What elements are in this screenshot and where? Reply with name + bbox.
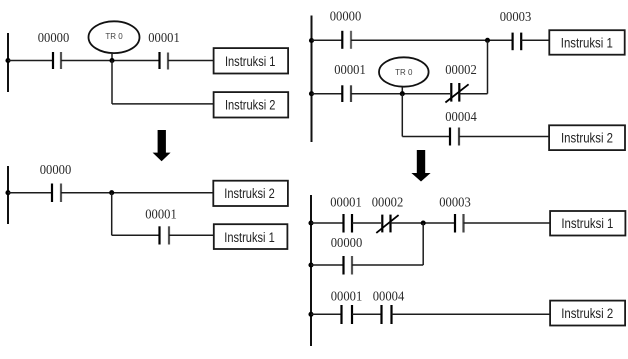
box Instruksi 2 (C) [549,125,625,150]
svg-text:00001: 00001 [145,207,177,222]
branch vertical from TR0 node down (C) [401,94,403,137]
branch vertical wire (B) [111,193,113,236]
svg-text:Instruksi 2: Instruksi 2 [224,186,275,201]
wire rail to contact 00001 rung2 (D) [311,313,341,315]
wire contact 00003 to box (C) [521,39,549,41]
junction dot rail C rung2 [309,91,314,96]
svg-text:Instruksi 1: Instruksi 1 [561,216,613,231]
contact 00004 (D) [380,305,382,324]
contact 00001 rung2 (D) [340,305,342,324]
contact 00001 (B) [158,226,160,244]
svg-text:Instruksi 1: Instruksi 1 [561,36,613,51]
contact 00004 (C) [449,128,451,146]
wire to NC 00002 (D) [352,222,381,224]
junction dot rail D rung2 [308,312,313,317]
wire contact 00000 to contact 00001 [61,60,159,62]
svg-text:Instruksi 1: Instruksi 1 [224,230,275,245]
junction dot on rail A rung1 [5,58,10,63]
branch horizontal wire to contact 00001 (B) [112,234,159,236]
wire contact to box Instruksi 2 (B) [61,192,214,194]
svg-text:Instruksi 2: Instruksi 2 [561,306,613,321]
contact 00000 (B) [51,184,53,203]
contact 00001 (NO) [158,52,160,69]
svg-text:00000: 00000 [331,235,363,250]
left power rail D [310,195,312,346]
svg-text:00000: 00000 [40,162,72,177]
wire contact to box Instruksi 1 (B) [169,234,214,236]
wire rail to contact 00000 (C) [312,39,343,41]
contact 00003 (C) [511,33,513,51]
wire rail to contact 00001 (D) [311,222,343,224]
wire contact 00000 to contact 00003 (C) [351,39,512,41]
wire to contact 00004 (D) [352,313,381,315]
svg-text:Instruksi 1: Instruksi 1 [225,54,276,69]
svg-text:00000: 00000 [330,8,362,23]
op coil TR 0 ellipse [89,21,140,53]
left power rail C [311,16,313,143]
wire NC 00002 to right bend (C) [459,93,487,95]
wire contact 00004 to box (D) [392,313,551,315]
svg-text:TR 0: TR 0 [395,68,413,77]
svg-text:00003: 00003 [439,195,471,210]
op coil TR 0 ellipse (C) [379,57,429,86]
svg-text:00004: 00004 [373,289,405,304]
wire contact 00001 to box [168,60,213,62]
svg-text:Instruksi 2: Instruksi 2 [225,98,276,113]
branch wire vertical from TR0 node [111,61,113,104]
svg-text:00003: 00003 [500,9,532,24]
box Instruksi 2 (D) [550,301,625,326]
svg-text:00002: 00002 [372,195,404,210]
wire contact 00004 to box (C) [459,136,549,138]
junction dot on rail B [5,190,10,195]
vertical wire up to rung1 (C) [487,40,489,93]
junction dot TR0 node (C) [400,91,405,96]
svg-text:00002: 00002 [445,62,477,77]
left power rail B [7,166,9,224]
wire NC to contact 00003 (D) [391,222,455,224]
wire contact 00003 to box (D) [464,222,551,224]
left power rail A [7,33,9,92]
wire contact 00000 to bend (D) [352,264,423,266]
contact 00001 (C) [341,85,343,102]
junction dot branch (B) [109,190,114,195]
svg-text:Instruksi 2: Instruksi 2 [561,130,613,145]
svg-text:00004: 00004 [445,109,477,124]
wire rail to contact 00000 (D) [311,264,343,266]
junction dot node TR0 branch [109,58,114,63]
svg-text:00000: 00000 [38,30,70,45]
box Instruksi 1 (A) [214,48,289,73]
contact 00001 rung1 (D) [342,214,344,233]
svg-text:TR 0: TR 0 [105,32,123,41]
stem TR0 to wire [111,53,113,61]
contact 00000 (NO) [52,52,54,69]
svg-text:00001: 00001 [331,289,363,304]
wire rail to contact 00000 [8,60,52,62]
vertical wire up to rung1 (D) [422,223,424,265]
branch horizontal to contact 00004 (C) [402,136,449,138]
NC contact 00002 (D) [381,215,383,233]
branch wire horizontal to box 2 [112,103,214,105]
svg-text:00001: 00001 [148,30,180,45]
wire rail to contact 00001 (C) [312,93,343,95]
junction dot branch join (D) [421,220,426,225]
wire contact 00001 to NC 00002 (C) [351,93,450,95]
box Instruksi 2 (A) [214,92,289,117]
box Instruksi 1 (B) [214,224,288,249]
svg-text:00001: 00001 [334,62,366,77]
junction dot branch join (C) [485,38,490,43]
junction dot rail C rung1 [309,38,314,43]
box Instruksi 1 (D) [550,211,625,236]
box Instruksi 1 (C) [549,30,624,55]
contact 00000 (C) [341,31,343,49]
NC contact 00002 (C) [450,83,452,102]
wire rail to contact 00000 (B) [8,192,51,194]
stem TR0 node (C) [401,87,403,94]
junction dot rail D rung1 [308,220,313,225]
svg-text:00001: 00001 [330,195,362,210]
contact 00000 (D) [342,256,344,275]
contact 00003 (D) [454,214,456,233]
box Instruksi 2 (B) [213,181,288,206]
junction dot rail D branch [308,262,313,267]
